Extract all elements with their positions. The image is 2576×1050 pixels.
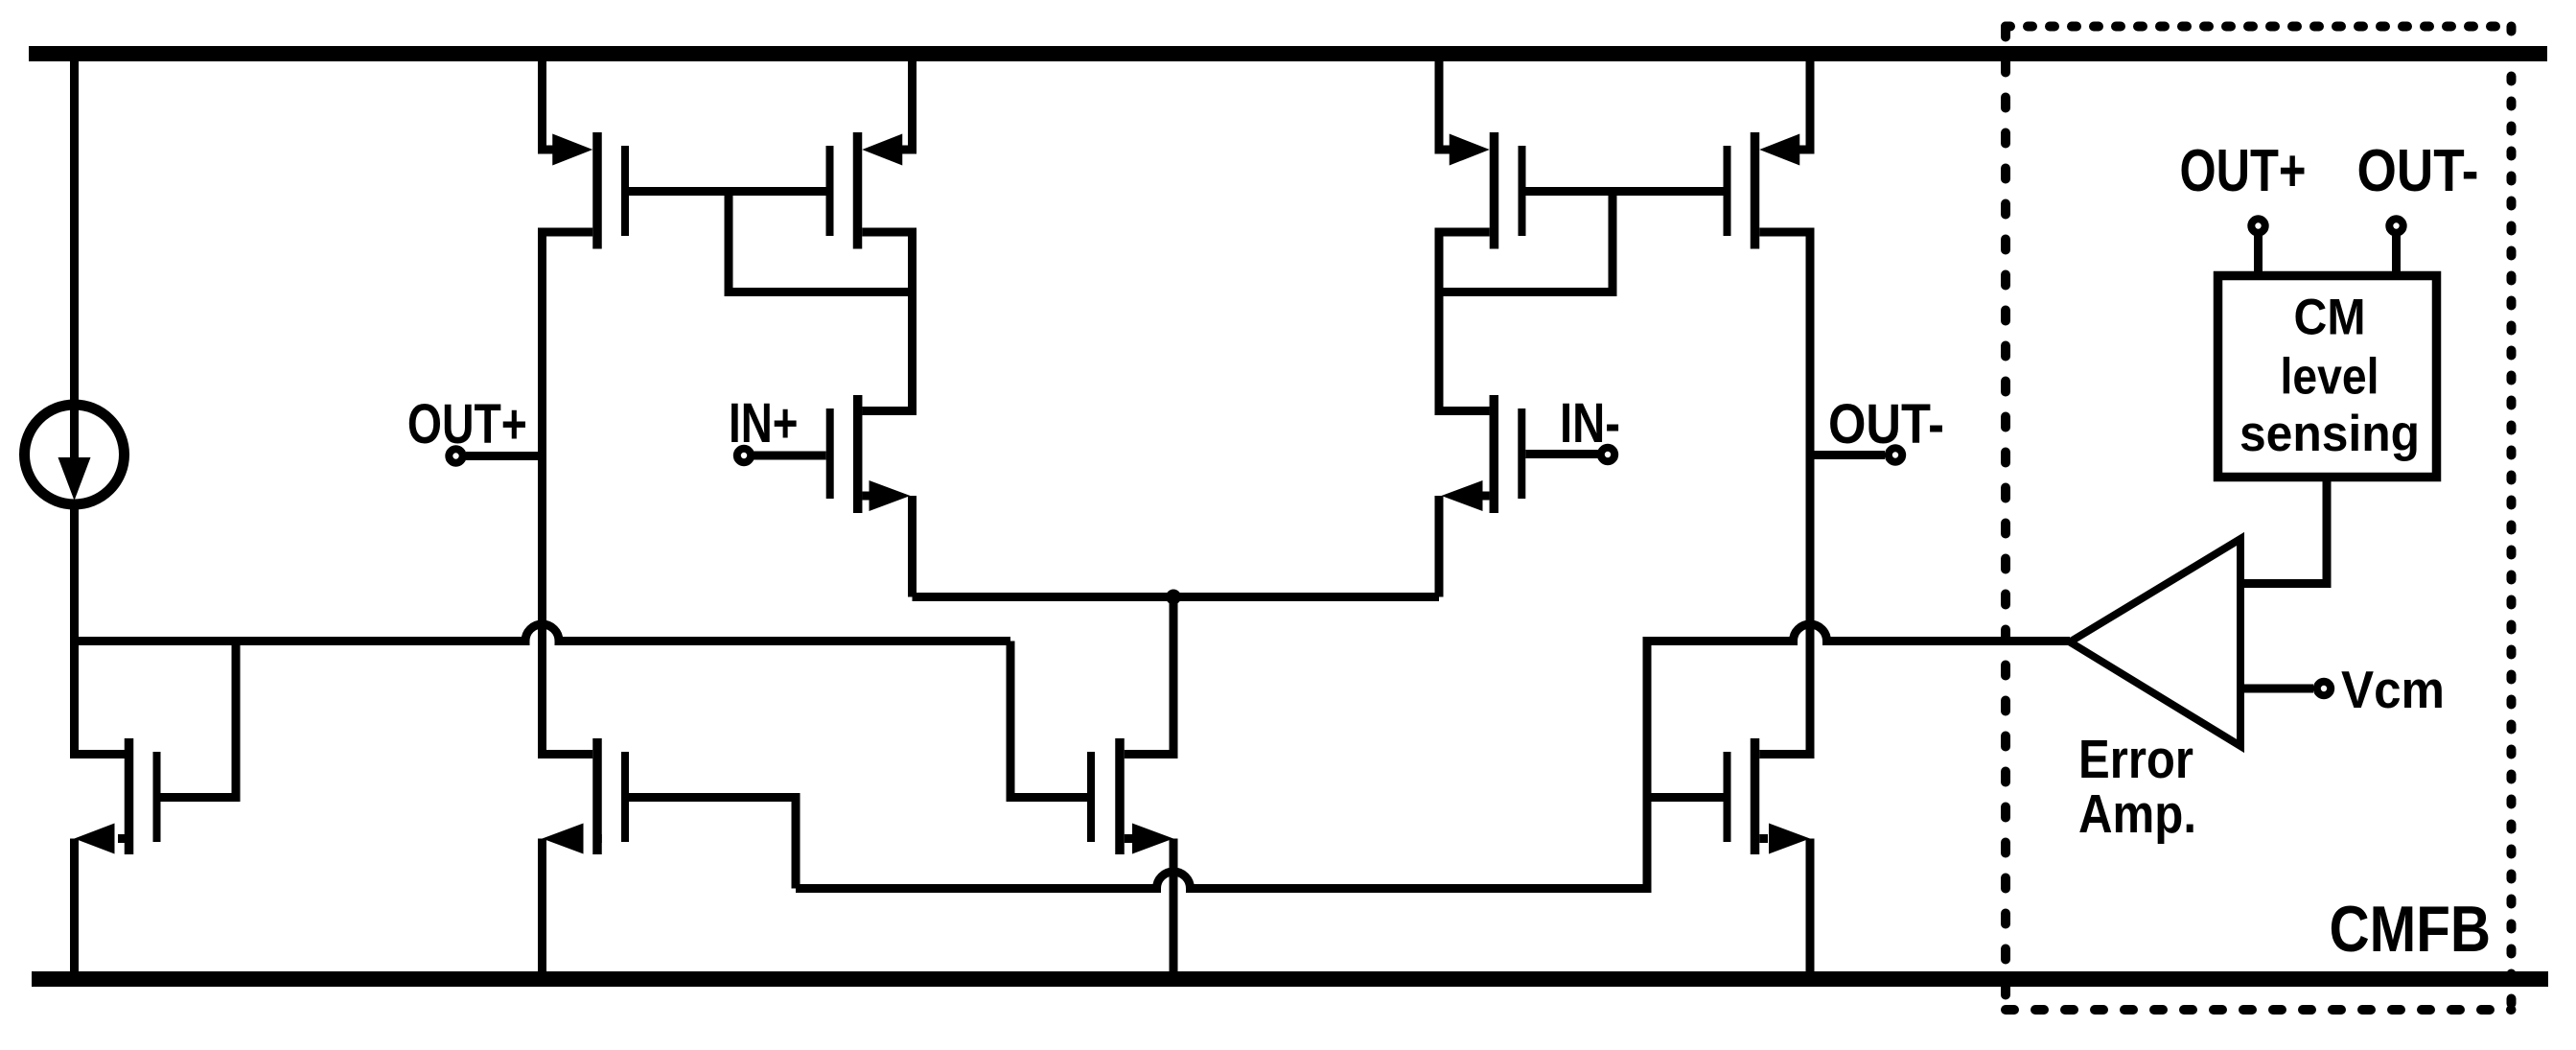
- wire: M1/M2 gate bus: [629, 187, 826, 196]
- wire: left mirror gates to M2 drain: [729, 187, 913, 292]
- wire: CMFB gate bus with hop over M9 source: [796, 872, 1647, 889]
- CM level sensing block: [2218, 276, 2437, 478]
- wire: OUT+ column (M1 drain to M5b drain): [543, 441, 593, 755]
- wire: VDD to current source: [70, 61, 79, 403]
- wire: M9 source to VSS: [1170, 839, 1178, 972]
- transistor M5 (NMOS input, IN+): [826, 292, 913, 597]
- svg-text:OUT-: OUT-: [2357, 138, 2479, 204]
- node OUT- sense terminal: [2357, 138, 2479, 271]
- transistor M6 (NMOS input, IN-): [1439, 292, 1525, 597]
- wire: right mirror gates to M3 drain: [1439, 187, 1613, 292]
- svg-text:level: level: [2281, 349, 2379, 406]
- transistor M7 (diode-connected NMOS bias reference, bottom-left): [75, 738, 161, 854]
- node OUT+ terminal: [407, 393, 543, 463]
- wire: M5b source to VSS: [538, 839, 546, 972]
- svg-text:OUT-: OUT-: [1828, 393, 1944, 455]
- wire: tail node to M9 drain: [1125, 597, 1173, 755]
- svg-text:OUT+: OUT+: [407, 393, 527, 455]
- svg-text:IN+: IN+: [729, 392, 799, 455]
- wire: differential pair tail bus: [913, 593, 1440, 601]
- wire: bias line (left mirror gate bus) with hop over OUT+ line: [70, 624, 1010, 642]
- svg-text:Vcm: Vcm: [2341, 660, 2445, 719]
- wire: M7 gate to bias line: [160, 637, 236, 798]
- svg-text:Amp.: Amp.: [2078, 783, 2196, 845]
- transistor M9 (NMOS tail current source): [1087, 738, 1173, 854]
- VDD power rail (top): [29, 46, 2547, 61]
- wire: CM sensing output to error amp input: [2240, 481, 2327, 584]
- node IN+ terminal: [729, 392, 826, 462]
- svg-text:Error: Error: [2078, 729, 2193, 790]
- wire: M8 gate lead: [1647, 793, 1724, 802]
- wire: M3/M4 gate bus: [1526, 187, 1724, 196]
- CMFB block dashed boundary: [2006, 27, 2512, 1011]
- transistor M3 (PMOS, diode side of right mirror): [1439, 61, 1526, 415]
- op-amp U1 (Error Amp): [2070, 539, 2240, 746]
- transistor M8 (NMOS current source, OUT- branch): [1724, 738, 1811, 854]
- svg-text:sensing: sensing: [2239, 406, 2420, 462]
- wire: M9 gate to bias line: [1010, 642, 1087, 798]
- current source I1: [25, 403, 125, 504]
- node OUT- terminal: [1810, 393, 1944, 462]
- wire: M7 source to VSS: [70, 839, 79, 972]
- node: tail junction dot: [1166, 590, 1181, 605]
- wire: error amp output to CMFB bus, hop over OUT- line: [1647, 624, 2070, 893]
- wire: current source to bias node and M7 drain: [75, 501, 126, 755]
- transistor M2 (PMOS, diode side of left mirror): [826, 61, 913, 415]
- transistor M5b (NMOS current source, OUT+ branch): [543, 738, 630, 854]
- svg-text:CMFB: CMFB: [2330, 893, 2492, 966]
- wire: M8 source to VSS: [1806, 839, 1815, 972]
- svg-text:OUT+: OUT+: [2180, 138, 2307, 204]
- transistor M1 (PMOS, OUT+ branch): [543, 61, 630, 460]
- VSS power rail (bottom): [32, 971, 2548, 987]
- transistor M4 (PMOS, OUT- branch): [1724, 61, 1811, 460]
- node Vcm terminal: [2240, 660, 2445, 719]
- node IN- terminal: [1525, 392, 1620, 461]
- svg-text:CM: CM: [2294, 290, 2366, 346]
- wire: OUT- column (M4 drain to M8 drain): [1759, 441, 1810, 755]
- wire: M5b gate to CMFB gate bus: [629, 798, 796, 889]
- node OUT+ sense terminal: [2180, 138, 2307, 271]
